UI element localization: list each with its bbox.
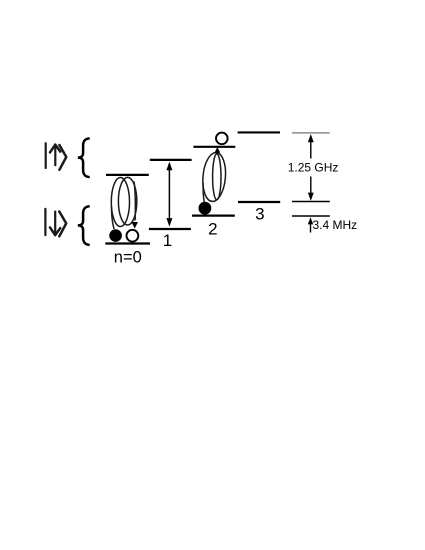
right reference bottom line	[292, 215, 330, 217]
svg-text:3: 3	[255, 205, 264, 224]
svg-text:3.4 MHz: 3.4 MHz	[313, 218, 358, 232]
level n=3 upper line	[238, 131, 280, 133]
central double-headed arrow between n=1 levels	[166, 162, 172, 227]
svg-text:n=0: n=0	[114, 249, 142, 267]
open circle on n=0 lower level	[126, 230, 138, 242]
level n=3 lower line	[238, 201, 280, 203]
brace upper	[78, 138, 90, 177]
1.25 GHz lower arrow (pointing down)	[308, 177, 314, 201]
1.25 GHz upper arrow (pointing up)	[308, 134, 314, 159]
filled circle on n=2 lower level	[199, 202, 212, 215]
3.4 MHz small up arrow	[308, 217, 313, 232]
level n=2 upper line	[193, 146, 235, 148]
coil up arrowhead	[215, 148, 220, 153]
level n=0 upper line	[106, 174, 149, 176]
svg-text:1: 1	[163, 231, 172, 250]
svg-text:2: 2	[208, 219, 217, 238]
level n=0 lower line	[105, 242, 150, 244]
brace lower	[78, 206, 90, 245]
open circle above n=2 upper level	[216, 133, 228, 145]
right reference top line (gray)	[292, 132, 330, 134]
ket label |down>	[45, 209, 66, 237]
filled circle on n=0 lower level	[109, 229, 122, 242]
level n=2 lower line	[192, 215, 235, 217]
ket label |up>	[46, 143, 67, 170]
svg-text:1.25 GHz: 1.25 GHz	[288, 161, 339, 175]
level n=1 lower line	[149, 228, 191, 230]
level n=1 upper line	[150, 159, 192, 161]
right reference middle line	[292, 201, 330, 203]
coil on n=0 (two loops with down arrow)	[111, 177, 137, 229]
coil down arrowhead	[132, 222, 138, 228]
coil on n=2 (loop and a half with up arrow)	[201, 152, 228, 203]
